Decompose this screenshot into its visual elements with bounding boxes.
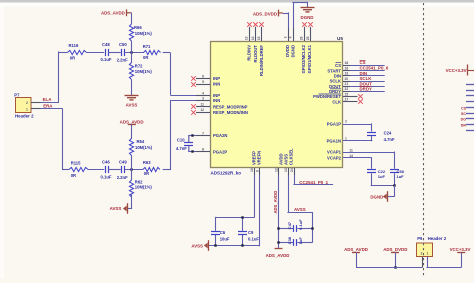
svg-text:R116: R116 (69, 43, 79, 48)
resistor R62 (129, 180, 152, 198)
wire (312, 212, 314, 243)
power port ADS_AVDD (344, 247, 368, 253)
svg-text:C38: C38 (287, 236, 292, 244)
svg-text:22: 22 (345, 87, 349, 91)
svg-text:AVSS: AVSS (110, 206, 122, 211)
svg-text:C48: C48 (102, 42, 110, 47)
net label ELA (43, 97, 53, 102)
wire ERA (41, 108, 70, 170)
svg-text:11: 11 (201, 103, 205, 107)
wire ELA (41, 51, 68, 103)
svg-text:P7: P7 (14, 92, 20, 97)
ground AVSS (125, 96, 139, 108)
svg-text:VCAP1: VCAP1 (327, 150, 342, 155)
svg-text:CS: CS (461, 106, 467, 110)
svg-text:SC: SC (461, 112, 466, 116)
svg-text:Header 2: Header 2 (15, 114, 34, 119)
connector P7 (14, 92, 34, 118)
svg-text:VCC+3.3V: VCC+3.3V (446, 68, 467, 73)
svg-text:RESP_MODN/INN: RESP_MODN/INN (213, 110, 248, 115)
wire (356, 253, 358, 268)
op-amp U5 ADS1292R body (211, 36, 344, 175)
svg-text:C22: C22 (378, 169, 386, 174)
wire (371, 173, 394, 186)
wire (388, 186, 395, 197)
net label ADS_AVDD vertical (273, 191, 278, 214)
net labels CS CC2541_P0_6 DIN SCLK DOUT DRDY (360, 60, 389, 91)
wire VREFP (215, 175, 255, 218)
resistor R64 (129, 138, 152, 155)
svg-text:10uF: 10uF (220, 237, 230, 242)
svg-text:C49: C49 (119, 159, 127, 164)
svg-text:AVSS: AVSS (294, 207, 306, 212)
power port AVSS (191, 240, 208, 251)
svg-text:R72: R72 (135, 64, 143, 69)
svg-text:PGA1P: PGA1P (327, 122, 341, 127)
svg-text:R64: R64 (137, 139, 145, 144)
svg-text:CS: CS (335, 63, 341, 68)
svg-text:ADS_AVDD: ADS_AVDD (344, 247, 368, 252)
svg-text:DGND: DGND (290, 45, 295, 57)
net label CC2541_P0_1 (299, 180, 328, 185)
svg-text:21: 21 (345, 82, 349, 86)
node (394, 266, 396, 268)
svg-text:0R: 0R (71, 173, 76, 178)
svg-text:RLDOUT: RLDOUT (253, 45, 258, 63)
wire (208, 245, 260, 247)
wire (131, 125, 133, 139)
svg-text:PGA1N: PGA1N (327, 138, 341, 143)
svg-text:C47: C47 (287, 221, 292, 229)
svg-text:P9: P9 (417, 236, 423, 241)
svg-text:4: 4 (202, 91, 204, 95)
svg-text:24: 24 (290, 168, 294, 172)
wire DVDD (283, 12, 289, 28)
resistor R71 (143, 44, 161, 60)
node (241, 216, 243, 218)
off-sheet connector stubs (466, 85, 474, 131)
svg-text:PGA2N: PGA2N (213, 133, 227, 138)
right pin numbers (345, 61, 349, 91)
capacitor C10 (176, 136, 193, 152)
svg-text:Header 2: Header 2 (428, 236, 447, 241)
svg-text:0.1uF: 0.1uF (101, 57, 112, 62)
svg-text:7: 7 (202, 131, 204, 135)
capacitor C6 (211, 217, 230, 247)
wire VREFN (259, 175, 261, 246)
capacitor C47 (279, 219, 313, 232)
wire VCAP1 (343, 152, 395, 169)
power port VCC+3.3V (450, 247, 471, 252)
resistor R116 (68, 43, 87, 60)
node (214, 244, 216, 246)
IC right stub shading (343, 66, 350, 92)
svg-text:10: 10 (250, 168, 254, 172)
svg-text:C50: C50 (119, 42, 127, 47)
wire (128, 170, 133, 209)
svg-text:10M(1%): 10M(1%) (135, 185, 153, 190)
svg-text:8: 8 (202, 148, 204, 152)
svg-text:AVSS: AVSS (191, 244, 203, 249)
IC left pin names (213, 76, 248, 154)
wire (163, 53, 171, 95)
svg-text:RLDINV: RLDINV (247, 45, 252, 61)
svg-text:SCLK: SCLK (330, 79, 341, 84)
svg-text:1uF: 1uF (397, 174, 405, 179)
net label AVSS (294, 207, 306, 212)
svg-text:CS: CS (360, 60, 366, 65)
svg-text:1uF: 1uF (378, 174, 386, 179)
capacitor C9 (238, 217, 259, 246)
svg-text:16: 16 (345, 67, 349, 71)
svg-text:15: 15 (345, 92, 349, 96)
svg-text:GPIO2/MCLK2: GPIO2/MCLK2 (301, 44, 306, 73)
capacitor C24 (367, 131, 395, 142)
resistor R66 (129, 24, 152, 41)
svg-text:C6: C6 (220, 230, 226, 235)
node (241, 244, 243, 246)
power port DGND (370, 191, 387, 202)
node (277, 227, 279, 229)
svg-text:ADS1292R_ko: ADS1292R_ko (211, 170, 242, 175)
wire bus (356, 267, 422, 269)
svg-text:DGND: DGND (370, 194, 383, 199)
IC bottom pin names (252, 148, 294, 165)
svg-text:INN: INN (213, 82, 220, 87)
wire (125, 52, 145, 54)
capacitor C58 (390, 169, 405, 179)
svg-text:1uF: 1uF (298, 237, 303, 245)
ground DGND (301, 8, 315, 20)
wire (108, 52, 121, 54)
power port ADS_AVDD (120, 119, 144, 124)
value 2.2nF (117, 58, 128, 63)
svg-text:DGND: DGND (301, 15, 314, 20)
connector P9 (417, 236, 447, 257)
node (311, 227, 313, 229)
dashed boundary line (423, 3, 425, 278)
wire (87, 52, 105, 54)
power port VCC+3.3V (446, 65, 474, 76)
wire (188, 136, 196, 152)
svg-text:ELA: ELA (43, 97, 53, 102)
svg-text:2: 2 (421, 251, 423, 255)
value 2.2nF (117, 175, 128, 180)
svg-text:C24: C24 (384, 131, 392, 136)
svg-text:6: 6 (202, 74, 204, 78)
svg-text:INN: INN (213, 98, 220, 103)
svg-text:C10: C10 (177, 138, 185, 143)
svg-text:DR: DR (461, 123, 467, 127)
wire (131, 13, 133, 24)
svg-text:R66: R66 (134, 25, 142, 30)
svg-text:ADS_DVDD: ADS_DVDD (253, 11, 277, 16)
svg-text:10M(1%): 10M(1%) (135, 31, 153, 36)
IC left pin stubs (196, 79, 210, 152)
svg-text:1: 1 (345, 136, 347, 140)
power port ADS_DVDD (253, 10, 283, 17)
wire PGA1N (343, 136, 372, 141)
svg-text:0R: 0R (144, 171, 149, 176)
svg-text:4.7nF: 4.7nF (176, 146, 187, 151)
IC top pin stubs (250, 27, 311, 41)
svg-text:17: 17 (345, 98, 349, 102)
power port ADS_AVDD (101, 9, 132, 16)
svg-text:2: 2 (26, 101, 28, 105)
svg-text:18: 18 (345, 61, 349, 65)
P7 pin 2 stub (31, 102, 41, 104)
no-connect X GPIO pins (302, 22, 313, 27)
svg-text:U5: U5 (337, 36, 343, 41)
wire VCAP2 (343, 157, 372, 169)
svg-text:2.2nF: 2.2nF (117, 58, 128, 63)
svg-text:10M(1%): 10M(1%) (135, 145, 153, 150)
wire CLKSEL (293, 175, 333, 185)
no-connect X RESP pins (191, 104, 196, 115)
svg-text:15: 15 (257, 36, 261, 40)
wire PGA1P (343, 123, 372, 131)
svg-text:PWDN/RESET: PWDN/RESET (313, 94, 341, 99)
svg-text:3: 3 (284, 36, 288, 38)
svg-text:RLDIN/RLDREF: RLDIN/RLDREF (259, 45, 264, 76)
wire (108, 169, 121, 171)
svg-text:SCLK: SCLK (360, 76, 373, 81)
wire to INP (170, 95, 210, 97)
svg-text:AVSS: AVSS (126, 102, 138, 107)
svg-text:10M(1%): 10M(1%) (135, 69, 153, 74)
wire (88, 169, 104, 171)
capacitor C49 (119, 159, 127, 173)
resistor R115 (69, 161, 88, 178)
IC top pin numbers (245, 36, 311, 40)
node (393, 184, 395, 186)
power port AVSS (110, 203, 128, 214)
IC left pin numbers (200, 74, 204, 151)
svg-text:0R: 0R (70, 56, 75, 61)
svg-text:VCAP2: VCAP2 (327, 155, 342, 160)
wire DGND (292, 2, 307, 28)
power port ADS_AVDD (266, 249, 290, 259)
svg-text:0.1uF: 0.1uF (298, 219, 303, 230)
IC right NC pins 15,17 (343, 92, 363, 103)
svg-text:19: 19 (345, 72, 349, 76)
svg-text:CC2541_P0_1: CC2541_P0_1 (299, 180, 328, 185)
capacitor C48 (101, 42, 112, 62)
wire to INN (163, 100, 210, 170)
svg-text:12: 12 (200, 108, 204, 112)
IC VCAP pins (327, 149, 353, 161)
svg-text:14: 14 (251, 36, 255, 40)
resistor R63 (143, 160, 160, 176)
wire (394, 173, 396, 186)
svg-text:RESP_MODP/INP: RESP_MODP/INP (213, 105, 248, 110)
no-connect X RLD pins (247, 22, 264, 27)
node (277, 241, 279, 243)
wire AVDD rail (278, 175, 280, 249)
svg-text:CLK: CLK (332, 100, 341, 105)
svg-text:26: 26 (300, 36, 304, 40)
svg-text:VCC+3.3V: VCC+3.3V (450, 247, 471, 252)
svg-text:C9: C9 (248, 230, 254, 235)
svg-text:0.1uF: 0.1uF (101, 175, 112, 180)
svg-text:R63: R63 (143, 160, 151, 165)
svg-text:CLKSEL: CLKSEL (289, 148, 294, 165)
svg-text:13: 13 (284, 168, 288, 172)
no-connect X pins 6,5 (191, 76, 196, 87)
P7 pin 1 stub (31, 108, 41, 110)
svg-text:0.1uF: 0.1uF (248, 237, 259, 242)
svg-text:4.7nF: 4.7nF (384, 137, 395, 142)
svg-text:DO: DO (461, 118, 467, 122)
svg-text:0R: 0R (143, 55, 148, 60)
svg-text:PGA2P: PGA2P (213, 149, 227, 154)
node row2 (130, 168, 132, 170)
svg-text:13: 13 (245, 36, 249, 40)
svg-text:C46: C46 (102, 160, 110, 165)
svg-text:ADS_AVDD: ADS_AVDD (120, 119, 144, 124)
IC top pin names (247, 44, 313, 76)
svg-text:3: 3 (202, 96, 204, 100)
svg-text:20: 20 (345, 77, 349, 81)
svg-text:ADS_AVDD: ADS_AVDD (266, 253, 290, 258)
svg-text:AVSS: AVSS (283, 154, 288, 165)
svg-text:2: 2 (345, 120, 347, 124)
wire (131, 52, 133, 95)
svg-text:1: 1 (427, 251, 429, 255)
overline marks (360, 60, 372, 86)
IC right wires SPI (343, 66, 385, 92)
svg-text:ADS_AVDD: ADS_AVDD (101, 11, 125, 16)
svg-text:12: 12 (274, 168, 278, 172)
capacitor C22 (367, 169, 386, 179)
IC bottom pin stubs (255, 168, 295, 175)
wire (131, 155, 133, 170)
svg-text:ADS_DVDD: ADS_DVDD (383, 247, 407, 252)
IC PGA1 pins (327, 120, 347, 144)
IC bottom pin numbers (250, 168, 294, 172)
wire (125, 169, 143, 171)
edge net label fragments (461, 106, 467, 127)
capacitor C50 (119, 42, 127, 56)
svg-text:R71: R71 (143, 44, 151, 49)
svg-text:R115: R115 (71, 161, 81, 166)
P9 pin wires (423, 257, 428, 268)
svg-text:DVDD: DVDD (285, 45, 290, 57)
svg-text:5: 5 (202, 80, 204, 84)
IC right pin names (313, 63, 341, 105)
wire AVSS pin (287, 175, 312, 213)
svg-text:2.2nF: 2.2nF (117, 175, 128, 180)
svg-text:ERA: ERA (43, 104, 53, 109)
node (191, 134, 193, 136)
net label ERA (43, 104, 53, 109)
node row1 (130, 51, 132, 53)
capacitor C38 (279, 236, 313, 246)
svg-text:9: 9 (255, 170, 259, 172)
wire (426, 252, 461, 267)
resistor R72 (129, 63, 152, 80)
svg-text:C58: C58 (397, 169, 405, 174)
power port ADS_DVDD (383, 247, 407, 253)
svg-text:4: 4 (289, 36, 293, 38)
wire (395, 253, 397, 268)
capacitor C46 (101, 160, 112, 180)
svg-text:ADS_AVDD: ADS_AVDD (273, 191, 278, 214)
svg-text:GPIO1/MCLK1: GPIO1/MCLK1 (307, 44, 312, 73)
svg-text:1: 1 (26, 107, 28, 111)
wire (131, 41, 133, 53)
svg-text:DRDY: DRDY (360, 86, 373, 91)
node (191, 150, 193, 152)
svg-text:INP: INP (213, 76, 220, 81)
svg-text:25: 25 (306, 36, 310, 40)
svg-text:VREFN: VREFN (256, 151, 261, 165)
